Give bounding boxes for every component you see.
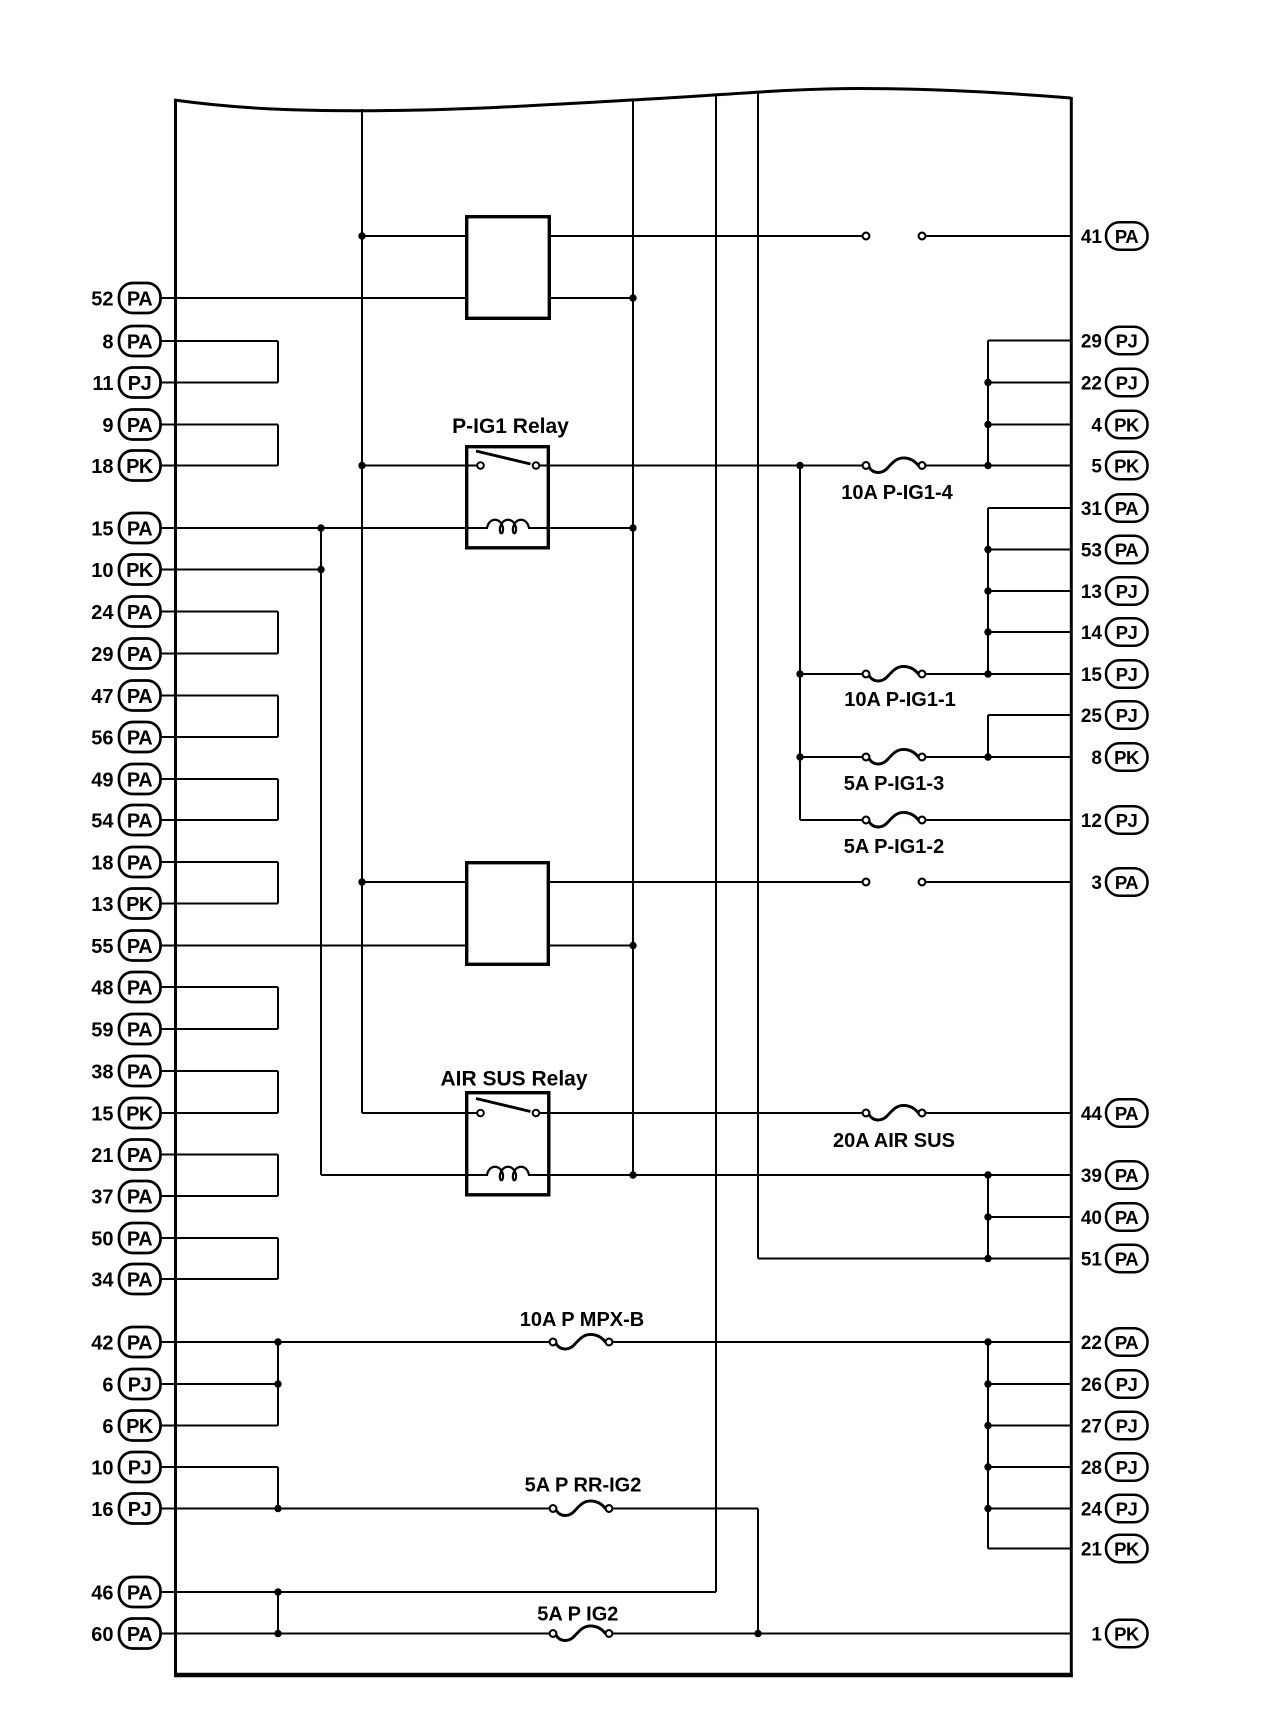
svg-text:49: 49 xyxy=(91,770,113,792)
svg-text:PJ: PJ xyxy=(128,1499,151,1521)
svg-text:39: 39 xyxy=(1081,1166,1102,1187)
svg-text:5A P IG2: 5A P IG2 xyxy=(537,1604,618,1626)
svg-text:PA: PA xyxy=(127,769,152,791)
svg-text:PK: PK xyxy=(1114,455,1140,476)
svg-text:5: 5 xyxy=(1091,457,1102,478)
svg-text:25: 25 xyxy=(1081,706,1103,727)
svg-text:PA: PA xyxy=(127,936,152,958)
svg-text:22: 22 xyxy=(1081,1333,1102,1354)
svg-text:PK: PK xyxy=(126,456,154,478)
svg-text:PA: PA xyxy=(127,518,152,540)
svg-text:15: 15 xyxy=(1081,665,1103,686)
svg-text:PK: PK xyxy=(1114,1623,1140,1644)
svg-text:12: 12 xyxy=(1081,811,1102,832)
svg-text:54: 54 xyxy=(91,811,114,833)
svg-text:PA: PA xyxy=(1115,1332,1138,1353)
svg-text:16: 16 xyxy=(91,1499,113,1521)
svg-text:15: 15 xyxy=(91,519,113,541)
svg-text:PA: PA xyxy=(127,1582,152,1604)
svg-text:1: 1 xyxy=(1091,1625,1102,1646)
svg-text:AIR SUS Relay: AIR SUS Relay xyxy=(440,1068,587,1091)
svg-text:11: 11 xyxy=(92,373,113,395)
svg-text:PJ: PJ xyxy=(1116,810,1138,831)
svg-text:PJ: PJ xyxy=(1116,581,1138,602)
svg-text:21: 21 xyxy=(1081,1540,1103,1561)
svg-text:29: 29 xyxy=(1081,332,1102,353)
svg-text:46: 46 xyxy=(91,1583,113,1605)
svg-text:PJ: PJ xyxy=(1116,1374,1138,1395)
svg-text:31: 31 xyxy=(1081,499,1103,520)
svg-text:PJ: PJ xyxy=(1116,330,1138,351)
svg-text:10A P-IG1-4: 10A P-IG1-4 xyxy=(841,482,953,504)
svg-text:60: 60 xyxy=(91,1624,113,1646)
svg-text:26: 26 xyxy=(1081,1375,1102,1396)
svg-text:PA: PA xyxy=(1115,1248,1138,1269)
svg-text:13: 13 xyxy=(1081,582,1102,603)
svg-text:20A AIR SUS: 20A AIR SUS xyxy=(833,1130,955,1152)
svg-text:24: 24 xyxy=(91,602,114,624)
svg-text:5A P-IG1-3: 5A P-IG1-3 xyxy=(844,773,944,795)
svg-text:10: 10 xyxy=(91,560,113,582)
svg-text:38: 38 xyxy=(91,1062,113,1084)
svg-text:PA: PA xyxy=(127,810,152,832)
svg-text:15: 15 xyxy=(91,1104,113,1126)
svg-text:PA: PA xyxy=(127,1228,152,1250)
svg-text:PA: PA xyxy=(127,1624,152,1646)
svg-text:5A P-IG1-2: 5A P-IG1-2 xyxy=(844,836,944,858)
svg-text:40: 40 xyxy=(1081,1208,1102,1229)
svg-text:PA: PA xyxy=(127,1145,152,1167)
svg-text:PK: PK xyxy=(126,894,154,916)
svg-text:PJ: PJ xyxy=(1116,1415,1138,1436)
svg-text:PK: PK xyxy=(1114,414,1140,435)
svg-text:56: 56 xyxy=(91,728,113,750)
svg-text:50: 50 xyxy=(91,1229,113,1251)
svg-text:PA: PA xyxy=(1115,1165,1138,1186)
svg-text:41: 41 xyxy=(1081,227,1103,248)
svg-text:PJ: PJ xyxy=(128,1457,151,1479)
svg-text:PJ: PJ xyxy=(1116,664,1138,685)
svg-text:PK: PK xyxy=(126,1103,154,1125)
svg-text:PA: PA xyxy=(127,1332,152,1354)
svg-text:PJ: PJ xyxy=(128,1374,151,1396)
svg-text:10A P MPX-B: 10A P MPX-B xyxy=(520,1309,644,1331)
svg-text:PJ: PJ xyxy=(1116,372,1138,393)
svg-text:14: 14 xyxy=(1081,623,1103,644)
svg-text:PA: PA xyxy=(127,686,152,708)
svg-text:PA: PA xyxy=(1115,539,1138,560)
svg-text:18: 18 xyxy=(91,853,113,875)
svg-text:3: 3 xyxy=(1091,873,1102,894)
svg-text:37: 37 xyxy=(91,1187,113,1209)
svg-text:PJ: PJ xyxy=(1116,622,1138,643)
svg-text:9: 9 xyxy=(102,415,113,437)
svg-text:4: 4 xyxy=(1091,416,1102,437)
svg-text:48: 48 xyxy=(91,978,113,1000)
svg-text:10A P-IG1-1: 10A P-IG1-1 xyxy=(844,689,956,711)
svg-text:6: 6 xyxy=(102,1416,113,1438)
svg-text:5A P RR-IG2: 5A P RR-IG2 xyxy=(525,1475,642,1497)
svg-text:PA: PA xyxy=(127,288,152,310)
svg-text:PA: PA xyxy=(1115,1207,1138,1228)
svg-text:8: 8 xyxy=(1091,748,1102,769)
svg-text:PK: PK xyxy=(126,1416,154,1438)
svg-text:59: 59 xyxy=(91,1020,113,1042)
svg-text:PA: PA xyxy=(1115,226,1138,247)
svg-text:P-IG1 Relay: P-IG1 Relay xyxy=(452,415,569,438)
svg-text:PA: PA xyxy=(127,331,152,353)
svg-text:PJ: PJ xyxy=(1116,1457,1138,1478)
svg-text:22: 22 xyxy=(1081,374,1102,395)
svg-text:44: 44 xyxy=(1081,1104,1103,1125)
svg-text:PA: PA xyxy=(127,644,152,666)
svg-text:51: 51 xyxy=(1081,1250,1103,1271)
svg-text:PJ: PJ xyxy=(128,373,151,395)
svg-text:PA: PA xyxy=(1115,498,1138,519)
svg-text:6: 6 xyxy=(102,1375,113,1397)
svg-text:27: 27 xyxy=(1081,1417,1102,1438)
svg-text:28: 28 xyxy=(1081,1458,1102,1479)
svg-text:PJ: PJ xyxy=(1116,705,1138,726)
svg-text:PA: PA xyxy=(127,1019,152,1041)
svg-text:52: 52 xyxy=(91,289,113,311)
svg-text:PK: PK xyxy=(1114,747,1140,768)
svg-text:PA: PA xyxy=(127,727,152,749)
svg-text:PA: PA xyxy=(1115,872,1138,893)
svg-text:PK: PK xyxy=(1114,1538,1140,1559)
svg-text:29: 29 xyxy=(91,644,113,666)
svg-text:34: 34 xyxy=(91,1270,114,1292)
svg-text:PA: PA xyxy=(1115,1103,1138,1124)
svg-text:PK: PK xyxy=(126,560,154,582)
svg-text:42: 42 xyxy=(91,1333,113,1355)
svg-text:21: 21 xyxy=(91,1145,113,1167)
svg-text:PA: PA xyxy=(127,415,152,437)
svg-text:18: 18 xyxy=(91,456,113,478)
svg-text:24: 24 xyxy=(1081,1500,1103,1521)
svg-text:PA: PA xyxy=(127,1269,152,1291)
svg-text:PA: PA xyxy=(127,977,152,999)
svg-text:PA: PA xyxy=(127,852,152,874)
svg-text:8: 8 xyxy=(102,332,113,354)
svg-text:PA: PA xyxy=(127,1061,152,1083)
svg-text:47: 47 xyxy=(91,686,113,708)
svg-text:13: 13 xyxy=(91,894,113,916)
svg-text:53: 53 xyxy=(1081,541,1102,562)
svg-text:PA: PA xyxy=(127,1186,152,1208)
svg-text:PJ: PJ xyxy=(1116,1498,1138,1519)
svg-text:PA: PA xyxy=(127,602,152,624)
svg-text:10: 10 xyxy=(91,1458,113,1480)
svg-text:55: 55 xyxy=(91,936,113,958)
